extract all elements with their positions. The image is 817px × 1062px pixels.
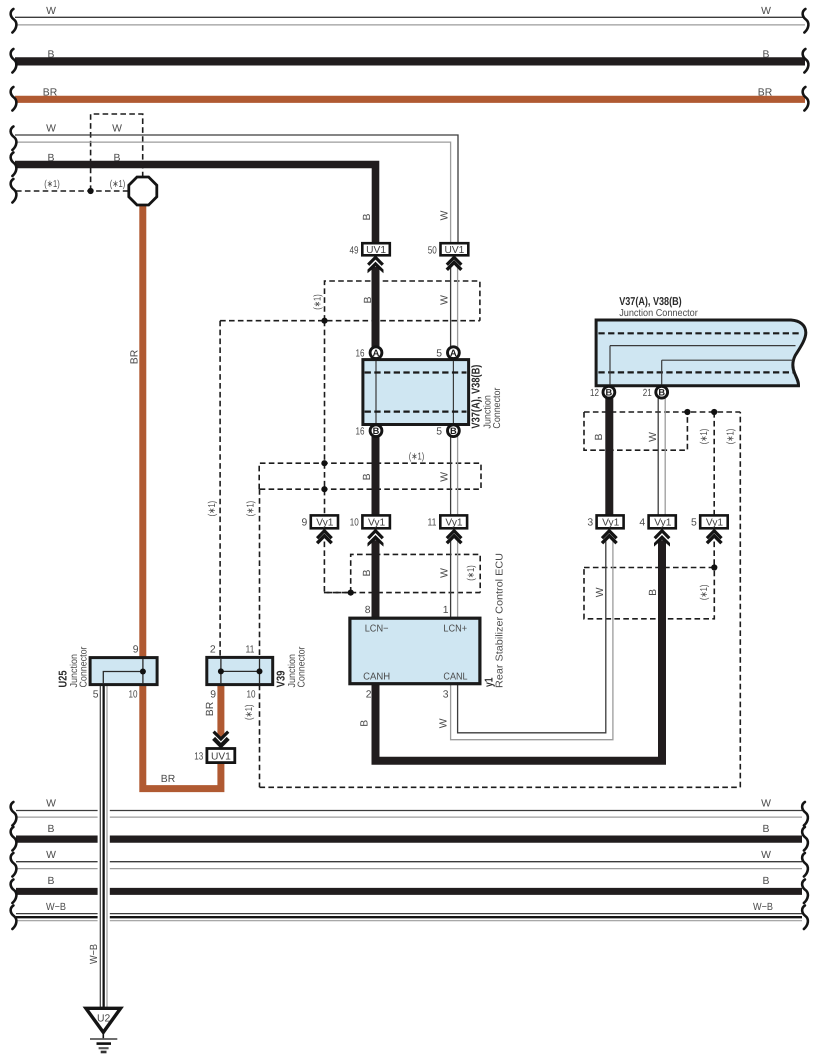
svg-text:Vy1: Vy1 xyxy=(316,518,334,529)
dashed box C bottom edge xyxy=(324,592,480,594)
break left bottom W-B xyxy=(11,906,17,930)
svg-text:A: A xyxy=(450,348,457,358)
octagon junction node xyxy=(129,177,157,205)
chevron pair below Vy1 10 (B wire, up) xyxy=(368,531,383,538)
break right bottom B2 xyxy=(802,880,808,904)
svg-text:(∗1): (∗1) xyxy=(244,705,255,721)
chevron pair below UV1 49 (B wire, up) xyxy=(368,257,383,264)
circle terminal 16B xyxy=(370,425,382,437)
svg-text:10: 10 xyxy=(247,690,256,701)
svg-text:16: 16 xyxy=(356,349,365,360)
dashed left drop x=259.5 to V39 pin 11 xyxy=(259,489,261,657)
svg-text:11: 11 xyxy=(428,518,437,529)
svg-text:V39: V39 xyxy=(276,671,288,688)
svg-text:8: 8 xyxy=(365,605,371,616)
svg-text:B: B xyxy=(48,50,55,61)
chevron pair below Vy1 9 (dashed wire, up) xyxy=(317,531,332,543)
wire W-B bottom bus 5 xyxy=(16,914,802,921)
break left bottom B1 xyxy=(11,827,17,851)
dashed (*1) wire to octagon xyxy=(16,190,129,192)
svg-text:2: 2 xyxy=(366,689,372,700)
svg-text:V37(A), V38(B): V37(A), V38(B) xyxy=(619,296,682,308)
svg-text:B: B xyxy=(648,589,659,596)
break right W1 xyxy=(803,9,809,33)
svg-text:UV1: UV1 xyxy=(444,245,464,256)
break right bottom B1 xyxy=(802,827,808,851)
svg-text:U2: U2 xyxy=(97,1014,111,1025)
svg-text:B: B xyxy=(362,473,373,480)
svg-text:BR: BR xyxy=(205,701,216,716)
wire W bottom bus 3 xyxy=(16,862,802,869)
node dot box B top xyxy=(321,460,327,466)
node dot right top line 1 xyxy=(684,409,690,415)
node dot V39 pin11 xyxy=(257,668,263,674)
svg-text:B: B xyxy=(48,824,55,835)
dashed line to 5 Vy1 xyxy=(713,412,715,515)
break left bottom B2 xyxy=(11,880,17,904)
ECU y1 box Rear Stabilizer Control ECU xyxy=(350,618,480,684)
svg-text:CANL: CANL xyxy=(443,671,468,682)
dashed box A above V37 connector xyxy=(325,281,480,321)
junction connector V37(A),V38(B) right big box with torn edge xyxy=(596,320,806,386)
svg-text:B: B xyxy=(450,426,457,436)
junction connector V37(A),V38(B) middle box xyxy=(363,360,469,425)
svg-text:W: W xyxy=(761,6,771,17)
node dot box C bottom left xyxy=(348,590,354,596)
svg-text:W: W xyxy=(46,123,56,134)
break left BR1 xyxy=(11,87,17,111)
connector Vy1 box 5 xyxy=(700,515,728,528)
node dot box G top right xyxy=(711,564,717,570)
circle terminal 5B xyxy=(448,425,460,437)
dashed from V39 pin 10 down xyxy=(259,685,261,788)
svg-text:W: W xyxy=(46,6,56,17)
svg-text:5: 5 xyxy=(436,349,442,360)
ground symbol U2 xyxy=(86,1008,121,1052)
svg-text:13: 13 xyxy=(194,752,203,763)
break left bottom W1 xyxy=(11,802,17,826)
svg-text:U25: U25 xyxy=(58,670,70,688)
break left (*1) xyxy=(11,179,17,203)
wire BR top bus 3 xyxy=(15,96,805,103)
wire B top bus 5 with elbow down to UV1 49 xyxy=(15,165,376,244)
svg-text:B: B xyxy=(114,153,121,164)
white casing for vertical W-B crossing bus wires xyxy=(98,800,110,928)
svg-text:Vy1: Vy1 xyxy=(706,518,724,529)
svg-text:5: 5 xyxy=(93,690,99,701)
svg-text:9: 9 xyxy=(302,518,308,529)
wire B ECU CANH pin 2 elbow to Vy1 4 xyxy=(376,540,663,761)
break right bottom W-B xyxy=(802,906,808,930)
wire W ECU CANL pin 3 elbow to Vy1 3 xyxy=(451,541,613,740)
dashed branch x=324 xyxy=(324,321,326,516)
dashed enclosure bottom edge xyxy=(260,786,741,788)
wire B bottom bus 2 xyxy=(16,835,802,842)
svg-text:B: B xyxy=(658,388,665,398)
svg-text:50: 50 xyxy=(428,245,437,256)
svg-text:B: B xyxy=(362,569,373,576)
svg-text:11: 11 xyxy=(246,644,255,655)
svg-text:B: B xyxy=(763,876,770,887)
circle terminal 5A xyxy=(448,347,460,359)
circle terminal 16A xyxy=(370,347,382,359)
svg-text:(∗1): (∗1) xyxy=(699,585,710,601)
dashed drop to V39 pin 2 xyxy=(219,321,221,658)
chevron pair below Vy1 4 (B wire, up) xyxy=(655,531,670,538)
svg-text:Vy1: Vy1 xyxy=(445,518,463,529)
svg-text:3: 3 xyxy=(587,518,593,529)
svg-text:W: W xyxy=(46,799,56,810)
svg-text:49: 49 xyxy=(350,245,359,256)
connector UV1 box 50 xyxy=(441,243,469,255)
connector UV1 box 13 xyxy=(207,749,235,763)
chevron pair below UV1 50 (W wire, up) xyxy=(447,257,462,269)
svg-text:W−B: W−B xyxy=(89,944,100,964)
circle terminal 12B xyxy=(603,386,615,398)
svg-text:(∗1): (∗1) xyxy=(466,565,477,581)
svg-text:Connector: Connector xyxy=(79,646,90,688)
dashed box G right bottom xyxy=(584,568,714,619)
chevron pair below Vy1 5 (dashed wire, up) xyxy=(707,531,722,543)
node dot box B bottom xyxy=(321,486,327,492)
svg-text:16: 16 xyxy=(356,427,365,438)
svg-text:UV1: UV1 xyxy=(366,245,386,256)
svg-text:W: W xyxy=(761,799,771,810)
svg-text:9: 9 xyxy=(210,690,216,701)
break left W1 xyxy=(11,9,17,33)
wire BR arrow tip into chevron xyxy=(217,734,224,740)
svg-text:W: W xyxy=(439,718,450,728)
svg-text:(∗1): (∗1) xyxy=(246,501,257,516)
svg-text:W−B: W−B xyxy=(46,902,66,913)
svg-text:A: A xyxy=(373,348,380,358)
svg-text:5: 5 xyxy=(436,427,442,438)
svg-text:9: 9 xyxy=(133,644,139,655)
svg-text:Vy1: Vy1 xyxy=(602,518,620,529)
svg-text:3: 3 xyxy=(443,689,449,700)
svg-text:BR: BR xyxy=(130,349,141,364)
dashed box C above ECU xyxy=(351,554,481,592)
svg-text:W: W xyxy=(439,295,450,305)
svg-text:5: 5 xyxy=(691,518,697,529)
svg-text:(∗1): (∗1) xyxy=(699,429,710,445)
wire W-B vertical U25 pin 5 to ground U2 xyxy=(100,683,107,1008)
svg-text:BR: BR xyxy=(758,88,773,99)
wire B top bus 2 xyxy=(15,57,805,65)
break left B1 xyxy=(11,49,17,73)
svg-text:W−B: W−B xyxy=(753,902,773,913)
svg-text:10: 10 xyxy=(129,690,138,701)
dashed from chevron 9 to box C xyxy=(324,542,350,593)
svg-text:LCN−: LCN− xyxy=(365,624,389,635)
node dot V39 pin2 xyxy=(218,668,224,674)
svg-text:Junction Connector: Junction Connector xyxy=(619,308,698,319)
break right B1 xyxy=(803,49,809,73)
connector Vy1 box 9 xyxy=(311,515,338,528)
svg-text:4: 4 xyxy=(639,518,645,529)
wire W circle 5B to Vy1 11 xyxy=(451,436,458,517)
connector Vy1 box 11 xyxy=(440,515,467,528)
svg-text:UV1: UV1 xyxy=(211,752,231,763)
dashed option box top-left (over octagon) xyxy=(91,114,143,191)
junction connector V39 box xyxy=(207,657,273,684)
wire W bottom bus 1 xyxy=(16,811,802,818)
node dot box A bottom left xyxy=(321,318,327,324)
svg-text:(∗1): (∗1) xyxy=(110,179,126,190)
svg-text:V37(A), V38(B): V37(A), V38(B) xyxy=(471,364,483,428)
wire B bottom bus 4 xyxy=(16,888,802,895)
node dot inside U25 xyxy=(140,669,146,675)
svg-text:2: 2 xyxy=(210,644,216,655)
svg-text:B: B xyxy=(606,388,613,398)
wire BR V39 pin 9 down to arrow 13 UV1 xyxy=(217,683,224,735)
svg-text:W: W xyxy=(46,850,56,861)
svg-text:Connector: Connector xyxy=(492,387,503,429)
dashed top line right section xyxy=(584,411,740,413)
break left W2 xyxy=(11,127,17,151)
svg-text:B: B xyxy=(373,426,380,436)
svg-text:W: W xyxy=(439,568,450,578)
wire B circle 12B to Vy1 3 xyxy=(605,398,613,517)
chevron pair below Vy1 3 (W wire, up) xyxy=(602,531,617,543)
break right BR1 xyxy=(803,87,809,111)
svg-text:B: B xyxy=(48,876,55,887)
dashed box E around B/W right xyxy=(584,412,687,450)
svg-text:(∗1): (∗1) xyxy=(313,294,324,310)
svg-text:1: 1 xyxy=(443,605,449,616)
svg-text:B: B xyxy=(362,213,373,220)
connector Vy1 box 3 xyxy=(597,515,624,528)
chevron pair below Vy1 11 (W wire, up) xyxy=(447,531,462,543)
svg-text:W: W xyxy=(595,587,606,597)
wire W top bus 1 xyxy=(15,17,805,25)
svg-text:BR: BR xyxy=(43,88,58,99)
svg-text:(∗1): (∗1) xyxy=(725,429,736,445)
svg-text:B: B xyxy=(363,296,374,303)
svg-text:y1: y1 xyxy=(483,677,495,687)
svg-text:W: W xyxy=(439,472,450,482)
svg-text:21: 21 xyxy=(643,388,652,399)
dashed enclosure right edge xyxy=(739,412,741,787)
wire W top bus 4 with elbow down to UV1 50 xyxy=(15,135,458,244)
wire B Vy1 10 chevron to ECU pin 8 xyxy=(372,540,380,619)
svg-text:10: 10 xyxy=(350,518,359,529)
break right bottom W1 xyxy=(802,802,808,826)
wire W Vy1 11 chevron to ECU pin 1 xyxy=(451,541,458,620)
connector UV1 box 49 xyxy=(362,243,390,255)
connector Vy1 box 4 xyxy=(649,515,676,528)
svg-text:LCN+: LCN+ xyxy=(443,624,467,635)
wire W below UV1 50 to circle 5A xyxy=(451,266,458,349)
svg-text:B: B xyxy=(594,433,605,440)
wire B circle 16B to Vy1 10 xyxy=(372,436,380,517)
svg-text:B: B xyxy=(763,50,770,61)
svg-text:(∗1): (∗1) xyxy=(409,452,425,463)
svg-text:B: B xyxy=(48,153,55,164)
dashed box B around B/W above Vy1 xyxy=(259,463,481,489)
svg-text:W: W xyxy=(648,432,659,442)
svg-text:Rear Stabilizer Control ECU: Rear Stabilizer Control ECU xyxy=(495,553,506,688)
svg-text:CANH: CANH xyxy=(363,671,390,682)
svg-text:Vy1: Vy1 xyxy=(368,518,386,529)
svg-text:W: W xyxy=(112,123,122,134)
junction connector U25 box xyxy=(90,658,157,685)
break left B2 xyxy=(11,153,17,177)
svg-text:B: B xyxy=(360,720,371,727)
node dot on (*1) line xyxy=(88,188,94,194)
wire BR loop 13 UV1 down, left, up to U25 pin 10 xyxy=(143,683,221,789)
dashed line A bottom edge xyxy=(220,320,480,322)
break right bottom W2 xyxy=(802,853,808,877)
wire B below UV1 49 to circle 16A xyxy=(372,267,380,348)
circle terminal 21B xyxy=(656,386,668,398)
svg-text:(∗1): (∗1) xyxy=(44,179,60,190)
dashed from 5 Vy1 chevron to box G xyxy=(713,542,715,568)
svg-text:Vy1: Vy1 xyxy=(654,518,672,529)
svg-text:W: W xyxy=(439,210,450,220)
connector Vy1 box 10 xyxy=(362,515,390,528)
svg-text:B: B xyxy=(763,824,770,835)
node dot right top line 2 xyxy=(711,409,717,415)
svg-text:12: 12 xyxy=(590,388,599,399)
svg-text:W: W xyxy=(761,850,771,861)
wire BR vertical from octagon to U25 pin 9 xyxy=(139,204,146,659)
chevron pair above UV1 13 (BR wire, down) xyxy=(214,732,229,746)
break left bottom W2 xyxy=(11,853,17,877)
svg-text:BR: BR xyxy=(161,774,176,785)
wire W circle 21B to Vy1 4 xyxy=(658,398,665,517)
svg-text:Connector: Connector xyxy=(297,646,308,688)
svg-text:(∗1): (∗1) xyxy=(207,501,218,516)
